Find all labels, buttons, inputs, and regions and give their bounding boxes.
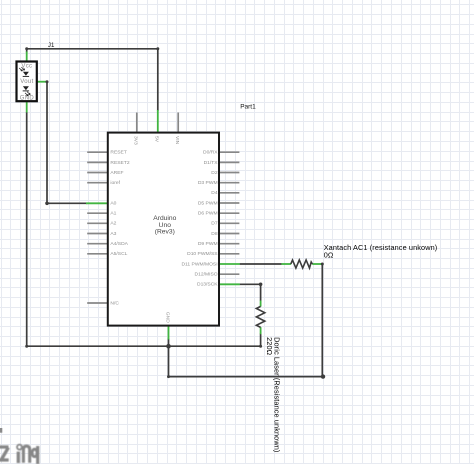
svg-text:A5/SCL: A5/SCL <box>110 251 127 257</box>
svg-text:220Ω: 220Ω <box>265 337 274 356</box>
svg-text:A2: A2 <box>110 221 116 227</box>
svg-text:D4: D4 <box>211 190 218 196</box>
svg-text:GND: GND <box>20 95 35 101</box>
svg-text:D10 PWM/SS: D10 PWM/SS <box>187 251 218 257</box>
svg-text:D8: D8 <box>211 231 218 237</box>
svg-text:RESET: RESET <box>110 150 126 156</box>
svg-text:RESET2: RESET2 <box>110 160 129 166</box>
svg-text:D3 PWM: D3 PWM <box>198 180 218 186</box>
svg-text:5V: 5V <box>154 136 160 143</box>
svg-text:D13/SCK: D13/SCK <box>197 282 218 288</box>
svg-text:D12/MISO: D12/MISO <box>195 272 218 278</box>
svg-text:D1/TX: D1/TX <box>204 160 219 166</box>
svg-text:D5 PWM: D5 PWM <box>198 200 218 206</box>
svg-text:GND: GND <box>164 312 170 323</box>
svg-text:D6 PWM: D6 PWM <box>198 211 218 217</box>
svg-text:A4/SDA: A4/SDA <box>110 241 128 247</box>
svg-text:N/C: N/C <box>110 300 119 306</box>
svg-text:D2: D2 <box>211 170 218 176</box>
svg-text:A1: A1 <box>110 211 116 217</box>
svg-text:0Ω: 0Ω <box>324 250 334 259</box>
svg-text:Vout: Vout <box>20 79 33 85</box>
svg-text:A0: A0 <box>110 200 116 206</box>
svg-text:D11 PWM/MOSI: D11 PWM/MOSI <box>181 261 217 267</box>
svg-text:A3: A3 <box>110 231 116 237</box>
svg-text:VIN: VIN <box>174 136 180 145</box>
svg-text:ioref: ioref <box>110 180 120 186</box>
svg-text:D7: D7 <box>211 221 218 227</box>
svg-text:Xantach AC1 (resistance unkown: Xantach AC1 (resistance unkown) <box>324 243 438 252</box>
svg-text:(Rev3): (Rev3) <box>155 229 175 236</box>
svg-text:3V3: 3V3 <box>133 136 139 145</box>
svg-text:D9 PWM: D9 PWM <box>198 241 218 247</box>
svg-text:Part1: Part1 <box>240 103 256 110</box>
svg-text:AREF: AREF <box>110 170 123 176</box>
svg-text:D0/RX: D0/RX <box>203 150 218 156</box>
svg-text:J1: J1 <box>48 42 55 49</box>
